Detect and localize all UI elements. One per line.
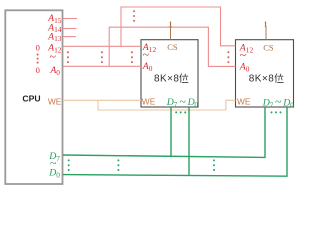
svg-text:CS: CS (263, 42, 274, 52)
svg-text:~: ~ (143, 48, 150, 62)
svg-text:0: 0 (36, 43, 40, 53)
svg-text:WE: WE (142, 97, 156, 107)
svg-text:~: ~ (240, 48, 247, 62)
svg-text:~: ~ (179, 94, 186, 108)
svg-text:0: 0 (36, 65, 40, 75)
svg-text:7: 7 (174, 100, 178, 109)
svg-text:CPU: CPU (22, 93, 40, 103)
svg-text:0: 0 (194, 100, 198, 109)
svg-text:1: 1 (264, 20, 268, 28)
svg-text:8K×8: 8K×8 (249, 74, 274, 85)
svg-text:8K×8: 8K×8 (154, 74, 179, 85)
svg-text:1: 1 (169, 20, 173, 28)
svg-text:~: ~ (49, 50, 56, 64)
svg-text:WE: WE (237, 96, 251, 106)
svg-text:~: ~ (275, 95, 282, 109)
svg-text:WE: WE (48, 97, 62, 107)
svg-text:7: 7 (270, 100, 274, 109)
svg-text:CS: CS (167, 42, 178, 52)
svg-text:0: 0 (290, 100, 294, 109)
